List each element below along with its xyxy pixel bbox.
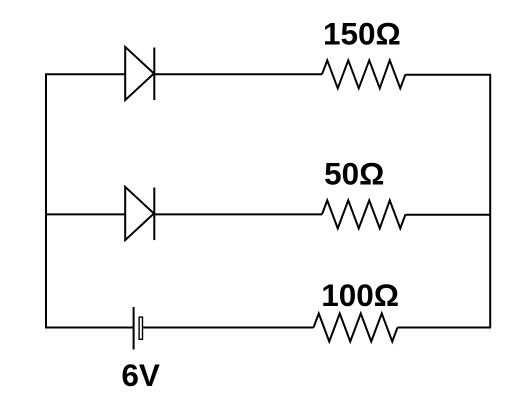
svg-text:6V: 6V [121, 357, 160, 391]
wire bottom branch left segment [45, 327, 134, 329]
battery B1 6V [134, 307, 143, 350]
wire left rail [45, 74, 47, 327]
svg-text:100Ω: 100Ω [321, 277, 399, 313]
wire top branch right segment [406, 74, 492, 76]
wire middle branch right segment [406, 214, 492, 216]
wire middle branch left segment [45, 213, 125, 215]
wire right rail [489, 74, 491, 327]
resistor 50ohm [322, 200, 406, 228]
diode D1 [125, 47, 154, 100]
svg-text:50Ω: 50Ω [324, 155, 384, 191]
wire bottom branch right segment [398, 327, 492, 329]
wire bottom branch middle segment [143, 327, 313, 329]
wire top branch middle segment [154, 73, 322, 75]
svg-text:150Ω: 150Ω [323, 16, 401, 52]
diode D2 [125, 187, 154, 240]
wire top branch left segment [45, 73, 125, 75]
resistor 100ohm [314, 314, 398, 342]
wire middle branch middle segment [154, 213, 322, 215]
resistor 150ohm [322, 60, 406, 88]
